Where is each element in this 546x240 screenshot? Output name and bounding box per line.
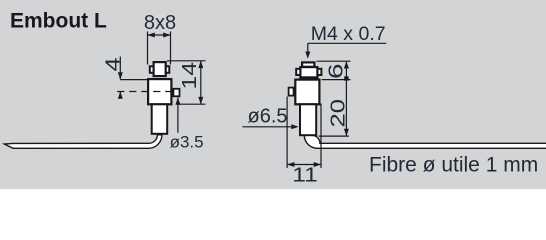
svg-text:4: 4: [103, 58, 125, 72]
svg-text:Fibre ø utile 1 mm: Fibre ø utile 1 mm: [369, 154, 538, 177]
svg-text:8x8: 8x8: [144, 12, 176, 34]
svg-text:6: 6: [326, 64, 348, 80]
svg-text:ø6.5: ø6.5: [248, 106, 288, 128]
svg-text:14: 14: [179, 62, 201, 90]
svg-text:20: 20: [327, 99, 349, 128]
svg-text:M4 x 0.7: M4 x 0.7: [311, 23, 386, 45]
svg-text:ø3.5: ø3.5: [170, 132, 204, 151]
svg-text:Embout L: Embout L: [10, 10, 107, 33]
svg-text:11: 11: [292, 164, 318, 186]
